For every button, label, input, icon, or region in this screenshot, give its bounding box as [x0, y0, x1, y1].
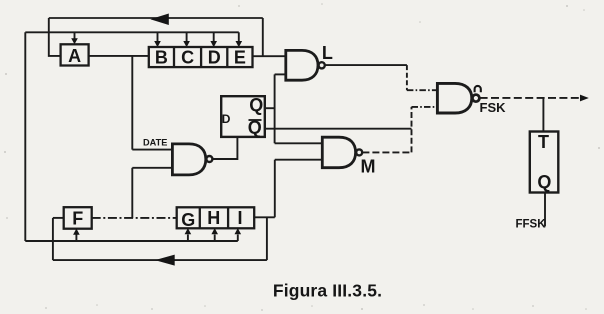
wire FSK gate bottom input — [412, 106, 438, 108]
gate L output bubble — [319, 62, 325, 68]
wire DATE bottom input riser to F-G line — [131, 168, 133, 218]
wire M output horizontal — [362, 151, 411, 153]
svg-text:F: F — [72, 209, 83, 229]
clock arrow into D — [210, 32, 217, 47]
clock arrow into G — [185, 228, 192, 241]
svg-text:I: I — [237, 208, 242, 228]
wire F output to G — [92, 217, 177, 219]
gate M output bubble — [356, 149, 362, 155]
svg-text:L: L — [322, 43, 333, 63]
wire L output horizontal — [325, 64, 407, 66]
svg-text:DATE: DATE — [143, 138, 167, 148]
wire top feedback line — [49, 17, 263, 19]
register cells B C D E — [149, 47, 253, 67]
register cell F — [64, 207, 92, 229]
wire Q output stub — [265, 107, 275, 109]
svg-text:Figura III.3.5.: Figura III.3.5. — [273, 281, 382, 301]
arrow left-pointing on bottom feedback — [155, 255, 175, 266]
wire F input riser from bottom feedback — [52, 218, 54, 260]
svg-text:G: G — [181, 210, 195, 230]
wire A output to B input — [89, 55, 149, 57]
gate DATE (NAND) — [172, 144, 205, 175]
label Q-bar of flip-flop — [248, 118, 262, 138]
wire feedback left vertical into A — [49, 18, 61, 56]
flip-flop U1 (D latch) — [221, 96, 265, 137]
wire FSK branch down to T flip-flop — [542, 98, 544, 132]
svg-text:E: E — [234, 48, 246, 68]
clock arrow into C — [183, 32, 190, 47]
gate FSK (NAND) — [437, 83, 471, 113]
wire T flip-flop Q output down — [544, 193, 546, 227]
wire M gate top input — [275, 142, 323, 144]
svg-text:B: B — [155, 48, 168, 68]
op-amp gate L (NAND) — [286, 50, 318, 80]
svg-text:FSK: FSK — [480, 100, 507, 115]
label n above FSK bubble — [475, 86, 481, 92]
clock arrow into H — [211, 228, 218, 241]
svg-text:C: C — [181, 48, 194, 68]
wire left clock rail — [24, 32, 26, 241]
clock arrow into I — [235, 228, 242, 241]
gate FSK output bubble — [472, 95, 479, 102]
svg-text:FFSK: FFSK — [516, 219, 547, 231]
svg-text:D: D — [208, 48, 221, 68]
gate M (NAND) — [322, 137, 355, 168]
wire M output riser to FSK input — [411, 107, 413, 152]
wire F input from feedback — [53, 217, 64, 219]
wire DATE top input — [132, 149, 172, 151]
wire Q-bar long line — [265, 128, 412, 130]
arrow FSK output end — [580, 95, 589, 102]
svg-text:Q: Q — [249, 95, 263, 115]
svg-text:M: M — [361, 157, 376, 177]
wire DATE output to flip-flop clock — [212, 137, 237, 159]
gate DATE output bubble — [206, 156, 212, 162]
wire clock top distribution line — [25, 31, 239, 33]
svg-text:A: A — [68, 46, 81, 66]
clock arrow into A — [71, 32, 78, 44]
svg-text:Q: Q — [537, 172, 551, 192]
wire L bottom input from Q — [275, 73, 286, 75]
wire L output vertical drop — [406, 65, 408, 90]
svg-text:H: H — [207, 208, 220, 228]
clock arrow into B — [154, 32, 161, 47]
clock arrow into F — [73, 229, 80, 242]
svg-text:D: D — [222, 112, 231, 126]
wire M bottom input — [275, 159, 323, 161]
wire FSK output line — [480, 97, 580, 99]
wire clock bottom distribution line — [25, 240, 238, 242]
register cells G H I — [177, 207, 255, 228]
node serial tap after A — [131, 56, 133, 150]
wire M bottom input riser down to I — [274, 160, 276, 218]
arrow left-pointing on top feedback — [150, 14, 169, 26]
flip-flop T (toggle) — [530, 132, 559, 193]
wire I output stub — [254, 216, 275, 218]
clock arrow into E — [236, 32, 243, 47]
wire bottom feedback line — [53, 259, 267, 261]
wire E output to gate L top input — [253, 55, 286, 57]
wire Q vertical riser — [274, 74, 276, 143]
wire feedback drop from I node — [266, 217, 268, 260]
wire DATE bottom input — [132, 167, 172, 169]
svg-text:T: T — [538, 132, 549, 152]
register cell A — [61, 44, 89, 65]
wire feedback right vertical to E output node — [262, 18, 264, 56]
wire FSK gate top input — [407, 89, 438, 91]
